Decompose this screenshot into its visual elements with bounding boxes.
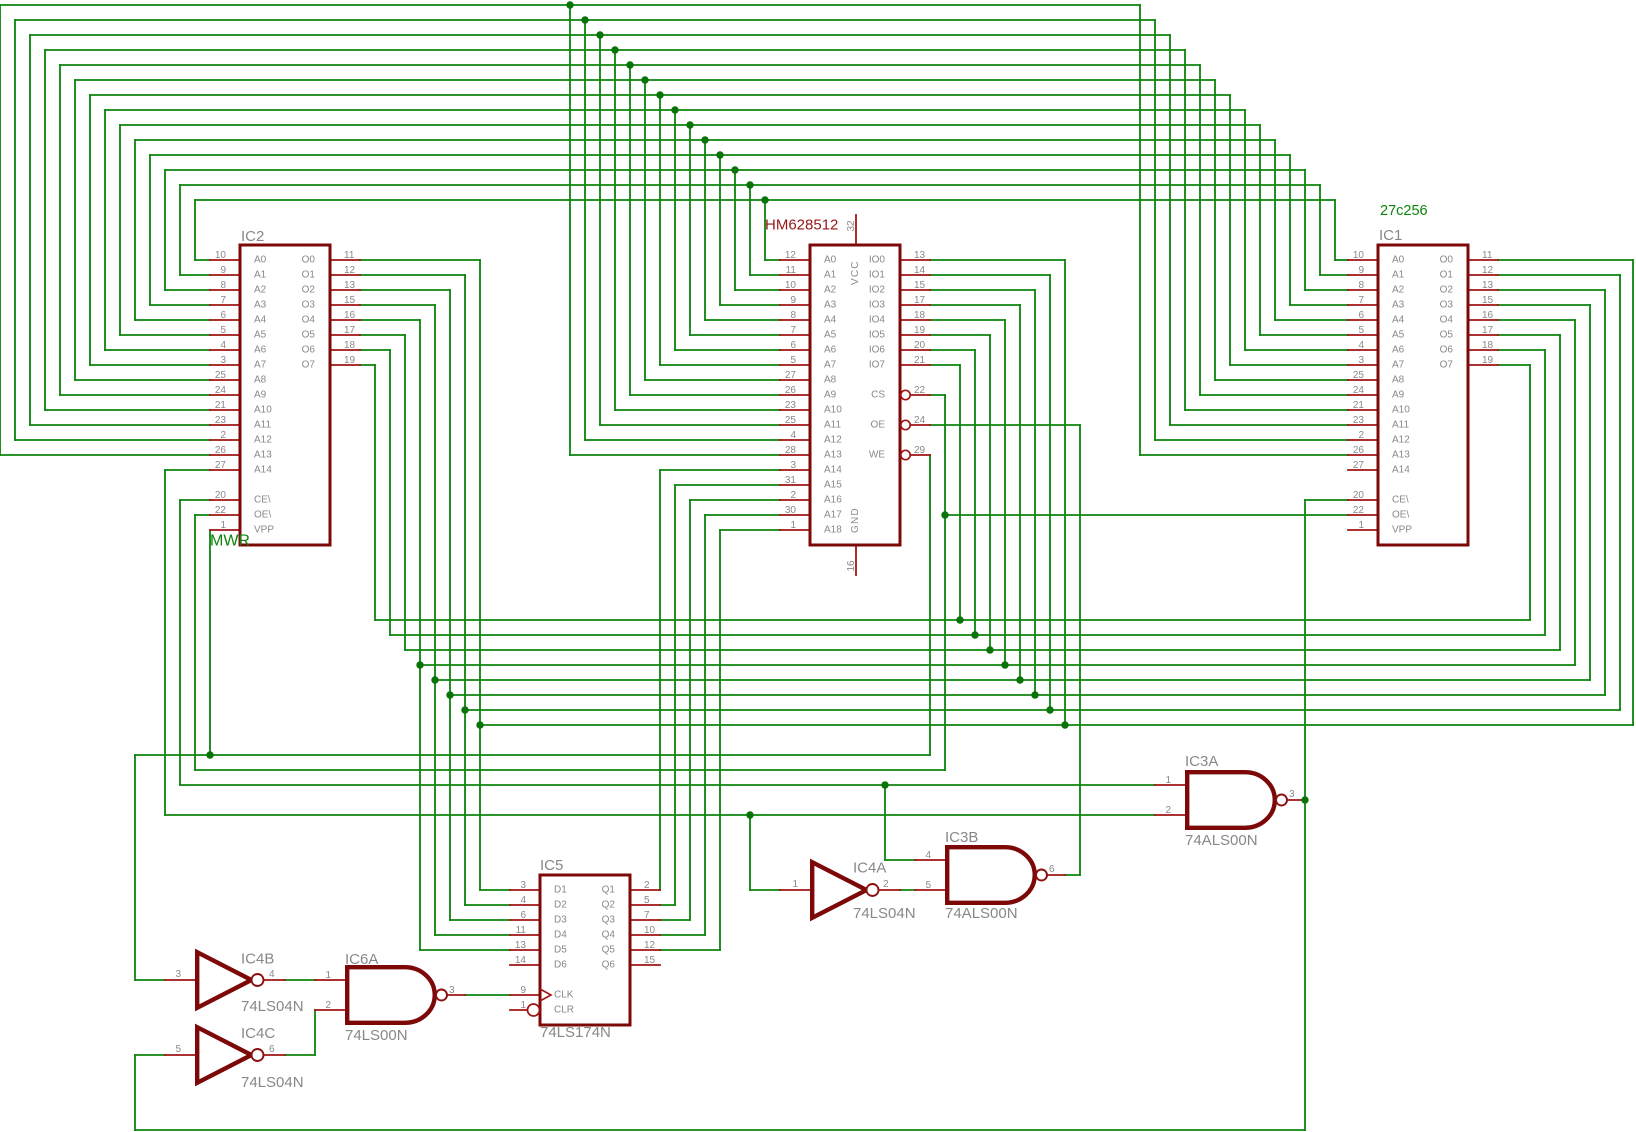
svg-text:A14: A14 <box>1392 465 1410 476</box>
svg-text:A10: A10 <box>1392 405 1410 416</box>
svg-text:CLK: CLK <box>554 990 574 1001</box>
svg-text:1: 1 <box>325 970 331 981</box>
svg-text:D2: D2 <box>554 900 567 911</box>
svg-text:1: 1 <box>220 520 226 531</box>
svg-text:MWR: MWR <box>210 533 250 550</box>
svg-text:A6: A6 <box>1392 345 1405 356</box>
svg-text:O1: O1 <box>302 270 316 281</box>
svg-text:A1: A1 <box>254 270 267 281</box>
svg-text:28: 28 <box>785 445 797 456</box>
svg-text:13: 13 <box>1482 280 1494 291</box>
svg-text:O7: O7 <box>1440 360 1454 371</box>
svg-text:IC6A: IC6A <box>345 951 378 968</box>
svg-text:A9: A9 <box>824 390 837 401</box>
svg-text:24: 24 <box>914 415 926 426</box>
svg-text:A10: A10 <box>824 405 842 416</box>
svg-text:CE\: CE\ <box>254 495 271 506</box>
svg-text:5: 5 <box>175 1044 181 1055</box>
svg-text:21: 21 <box>1353 400 1365 411</box>
svg-text:7: 7 <box>790 325 796 336</box>
svg-text:O3: O3 <box>302 300 316 311</box>
svg-text:5: 5 <box>1358 325 1364 336</box>
svg-text:10: 10 <box>785 280 797 291</box>
svg-text:3: 3 <box>520 880 526 891</box>
svg-text:2: 2 <box>1165 805 1171 816</box>
svg-text:19: 19 <box>1482 355 1494 366</box>
svg-text:A12: A12 <box>1392 435 1410 446</box>
svg-text:IC5: IC5 <box>540 857 563 874</box>
svg-text:16: 16 <box>846 560 857 572</box>
svg-text:23: 23 <box>785 400 797 411</box>
svg-text:A1: A1 <box>824 270 837 281</box>
svg-text:A7: A7 <box>824 360 837 371</box>
svg-text:14: 14 <box>914 265 926 276</box>
svg-text:15: 15 <box>344 295 356 306</box>
svg-text:IC3A: IC3A <box>1185 753 1218 770</box>
svg-text:A2: A2 <box>1392 285 1405 296</box>
svg-text:22: 22 <box>1353 505 1365 516</box>
svg-text:5: 5 <box>644 895 650 906</box>
svg-text:O5: O5 <box>302 330 316 341</box>
svg-text:13: 13 <box>914 250 926 261</box>
svg-text:O1: O1 <box>1440 270 1454 281</box>
svg-text:IC4B: IC4B <box>241 951 274 968</box>
svg-text:13: 13 <box>515 940 527 951</box>
svg-text:Q6: Q6 <box>602 960 616 971</box>
svg-text:O0: O0 <box>302 255 316 266</box>
svg-text:23: 23 <box>215 415 227 426</box>
svg-text:1: 1 <box>520 1000 526 1011</box>
svg-text:30: 30 <box>785 505 797 516</box>
svg-text:A11: A11 <box>254 420 271 431</box>
svg-text:IC4A: IC4A <box>853 860 886 877</box>
svg-text:17: 17 <box>1482 325 1494 336</box>
svg-text:12: 12 <box>785 250 797 261</box>
svg-text:29: 29 <box>914 445 926 456</box>
svg-text:A15: A15 <box>824 480 842 491</box>
svg-text:A14: A14 <box>824 465 842 476</box>
svg-text:5: 5 <box>925 880 931 891</box>
svg-text:Q5: Q5 <box>602 945 616 956</box>
svg-text:3: 3 <box>1289 789 1295 800</box>
svg-text:A12: A12 <box>254 435 272 446</box>
svg-text:21: 21 <box>215 400 227 411</box>
svg-text:20: 20 <box>914 340 926 351</box>
svg-text:20: 20 <box>1353 490 1365 501</box>
svg-text:22: 22 <box>914 385 926 396</box>
svg-text:A3: A3 <box>254 300 267 311</box>
svg-text:1: 1 <box>792 879 798 890</box>
svg-text:A7: A7 <box>1392 360 1405 371</box>
svg-text:A4: A4 <box>254 315 267 326</box>
svg-text:19: 19 <box>914 325 926 336</box>
svg-text:7: 7 <box>1358 295 1364 306</box>
svg-text:Q1: Q1 <box>602 885 616 896</box>
svg-text:IO1: IO1 <box>869 270 886 281</box>
svg-text:IO4: IO4 <box>869 315 886 326</box>
svg-text:27: 27 <box>1353 460 1365 471</box>
svg-text:O5: O5 <box>1440 330 1454 341</box>
svg-text:3: 3 <box>790 460 796 471</box>
svg-text:20: 20 <box>215 490 227 501</box>
svg-text:12: 12 <box>1482 265 1494 276</box>
svg-text:15: 15 <box>1482 295 1494 306</box>
svg-text:6: 6 <box>520 910 526 921</box>
svg-text:IO6: IO6 <box>869 345 886 356</box>
svg-text:A6: A6 <box>824 345 837 356</box>
svg-text:A13: A13 <box>1392 450 1410 461</box>
svg-text:8: 8 <box>790 310 796 321</box>
svg-text:IC3B: IC3B <box>945 829 978 846</box>
svg-text:22: 22 <box>215 505 227 516</box>
svg-text:6: 6 <box>269 1044 275 1055</box>
svg-text:IC4C: IC4C <box>241 1025 275 1042</box>
svg-text:O0: O0 <box>1440 255 1454 266</box>
svg-text:2: 2 <box>790 490 796 501</box>
svg-text:IC1: IC1 <box>1379 227 1402 244</box>
svg-text:3: 3 <box>175 969 181 980</box>
svg-text:A13: A13 <box>824 450 842 461</box>
svg-text:A1: A1 <box>1392 270 1405 281</box>
svg-text:26: 26 <box>215 445 227 456</box>
svg-text:10: 10 <box>215 250 227 261</box>
svg-text:O6: O6 <box>302 345 316 356</box>
svg-text:D3: D3 <box>554 915 567 926</box>
svg-text:A8: A8 <box>1392 375 1405 386</box>
svg-text:O2: O2 <box>302 285 316 296</box>
svg-text:27c256: 27c256 <box>1380 203 1428 219</box>
svg-text:16: 16 <box>344 310 356 321</box>
svg-text:A13: A13 <box>254 450 272 461</box>
svg-text:8: 8 <box>220 280 226 291</box>
svg-text:7: 7 <box>644 910 650 921</box>
svg-text:Q2: Q2 <box>602 900 616 911</box>
svg-text:A11: A11 <box>1392 420 1409 431</box>
svg-text:2: 2 <box>325 1000 331 1011</box>
svg-text:5: 5 <box>220 325 226 336</box>
svg-text:16: 16 <box>1482 310 1494 321</box>
svg-text:1: 1 <box>1358 520 1364 531</box>
svg-text:O4: O4 <box>302 315 316 326</box>
svg-text:1: 1 <box>790 520 796 531</box>
svg-text:D4: D4 <box>554 930 567 941</box>
svg-text:A7: A7 <box>254 360 267 371</box>
svg-text:O4: O4 <box>1440 315 1454 326</box>
svg-text:6: 6 <box>1049 864 1055 875</box>
svg-text:O7: O7 <box>302 360 316 371</box>
svg-text:25: 25 <box>1353 370 1365 381</box>
svg-text:25: 25 <box>785 415 797 426</box>
svg-text:11: 11 <box>344 250 355 261</box>
svg-text:2: 2 <box>644 880 650 891</box>
svg-text:19: 19 <box>344 355 356 366</box>
svg-text:A16: A16 <box>824 495 842 506</box>
svg-text:26: 26 <box>1353 445 1365 456</box>
svg-text:4: 4 <box>925 850 931 861</box>
svg-text:A5: A5 <box>1392 330 1405 341</box>
svg-text:3: 3 <box>220 355 226 366</box>
svg-text:4: 4 <box>1358 340 1364 351</box>
svg-text:A9: A9 <box>254 390 267 401</box>
svg-text:D1: D1 <box>554 885 567 896</box>
svg-text:4: 4 <box>520 895 526 906</box>
svg-text:6: 6 <box>220 310 226 321</box>
svg-text:7: 7 <box>220 295 226 306</box>
svg-text:18: 18 <box>914 310 926 321</box>
svg-text:VCC: VCC <box>850 260 861 285</box>
svg-text:1: 1 <box>1165 775 1171 786</box>
svg-text:IO2: IO2 <box>869 285 886 296</box>
svg-text:O6: O6 <box>1440 345 1454 356</box>
svg-text:2: 2 <box>220 430 226 441</box>
svg-text:32: 32 <box>846 220 857 232</box>
svg-text:23: 23 <box>1353 415 1365 426</box>
svg-text:IO3: IO3 <box>869 300 886 311</box>
svg-text:74LS00N: 74LS00N <box>345 1027 408 1044</box>
svg-text:OE: OE <box>871 420 886 431</box>
svg-text:IO5: IO5 <box>869 330 886 341</box>
svg-text:IC2: IC2 <box>241 228 264 245</box>
svg-text:24: 24 <box>215 385 227 396</box>
svg-text:14: 14 <box>515 955 527 966</box>
svg-text:18: 18 <box>344 340 356 351</box>
svg-text:A6: A6 <box>254 345 267 356</box>
svg-text:A4: A4 <box>1392 315 1405 326</box>
svg-text:A3: A3 <box>1392 300 1405 311</box>
svg-text:24: 24 <box>1353 385 1365 396</box>
svg-text:VPP: VPP <box>1392 525 1412 536</box>
svg-text:OE\: OE\ <box>254 510 271 521</box>
svg-text:A2: A2 <box>254 285 267 296</box>
svg-text:IO0: IO0 <box>869 255 886 266</box>
svg-text:26: 26 <box>785 385 797 396</box>
svg-text:2: 2 <box>1358 430 1364 441</box>
svg-text:VPP: VPP <box>254 525 274 536</box>
svg-text:17: 17 <box>344 325 356 336</box>
svg-text:74ALS00N: 74ALS00N <box>945 905 1018 922</box>
svg-text:74ALS00N: 74ALS00N <box>1185 832 1258 849</box>
svg-text:12: 12 <box>344 265 356 276</box>
svg-text:5: 5 <box>790 355 796 366</box>
svg-text:74LS04N: 74LS04N <box>853 905 916 922</box>
svg-text:25: 25 <box>215 370 227 381</box>
svg-text:A5: A5 <box>254 330 267 341</box>
svg-text:11: 11 <box>1482 250 1493 261</box>
svg-text:10: 10 <box>1353 250 1365 261</box>
svg-text:D6: D6 <box>554 960 567 971</box>
svg-text:A0: A0 <box>1392 255 1405 266</box>
svg-text:O2: O2 <box>1440 285 1454 296</box>
svg-text:CS: CS <box>871 390 885 401</box>
svg-text:18: 18 <box>1482 340 1494 351</box>
svg-text:IO7: IO7 <box>869 360 886 371</box>
svg-text:GND: GND <box>850 507 861 533</box>
svg-text:A3: A3 <box>824 300 837 311</box>
svg-text:Q3: Q3 <box>602 915 616 926</box>
svg-text:OE\: OE\ <box>1392 510 1409 521</box>
svg-text:6: 6 <box>1358 310 1364 321</box>
svg-text:9: 9 <box>790 295 796 306</box>
svg-text:3: 3 <box>449 985 455 996</box>
svg-text:Q4: Q4 <box>602 930 616 941</box>
svg-text:6: 6 <box>790 340 796 351</box>
svg-text:A10: A10 <box>254 405 272 416</box>
svg-text:D5: D5 <box>554 945 567 956</box>
svg-text:A11: A11 <box>824 420 841 431</box>
svg-text:4: 4 <box>220 340 226 351</box>
svg-text:27: 27 <box>215 460 227 471</box>
svg-text:A0: A0 <box>824 255 837 266</box>
svg-text:11: 11 <box>516 925 527 936</box>
svg-text:17: 17 <box>914 295 926 306</box>
svg-text:74LS04N: 74LS04N <box>241 998 304 1015</box>
svg-text:A8: A8 <box>254 375 267 386</box>
svg-text:A0: A0 <box>254 255 267 266</box>
svg-text:A18: A18 <box>824 525 842 536</box>
svg-text:15: 15 <box>914 280 926 291</box>
svg-text:21: 21 <box>914 355 926 366</box>
svg-text:A12: A12 <box>824 435 842 446</box>
svg-text:9: 9 <box>1358 265 1364 276</box>
svg-text:A2: A2 <box>824 285 837 296</box>
svg-text:3: 3 <box>1358 355 1364 366</box>
svg-text:4: 4 <box>790 430 796 441</box>
svg-text:CE\: CE\ <box>1392 495 1409 506</box>
svg-text:27: 27 <box>785 370 797 381</box>
svg-text:A8: A8 <box>824 375 837 386</box>
svg-text:CLR: CLR <box>554 1005 574 1016</box>
svg-text:HM628512: HM628512 <box>765 217 838 234</box>
svg-text:12: 12 <box>644 940 656 951</box>
svg-text:A17: A17 <box>824 510 842 521</box>
svg-text:A4: A4 <box>824 315 837 326</box>
svg-text:8: 8 <box>1358 280 1364 291</box>
svg-text:A14: A14 <box>254 465 272 476</box>
svg-text:A5: A5 <box>824 330 837 341</box>
svg-text:WE: WE <box>869 450 885 461</box>
svg-text:2: 2 <box>883 879 889 890</box>
svg-text:31: 31 <box>785 475 797 486</box>
svg-text:9: 9 <box>520 985 526 996</box>
svg-text:74LS174N: 74LS174N <box>540 1024 611 1041</box>
svg-text:4: 4 <box>269 969 275 980</box>
svg-text:9: 9 <box>220 265 226 276</box>
svg-text:11: 11 <box>786 265 797 276</box>
svg-text:15: 15 <box>644 955 656 966</box>
svg-text:74LS04N: 74LS04N <box>241 1074 304 1091</box>
svg-text:10: 10 <box>644 925 656 936</box>
svg-text:A9: A9 <box>1392 390 1405 401</box>
svg-text:O3: O3 <box>1440 300 1454 311</box>
svg-text:13: 13 <box>344 280 356 291</box>
